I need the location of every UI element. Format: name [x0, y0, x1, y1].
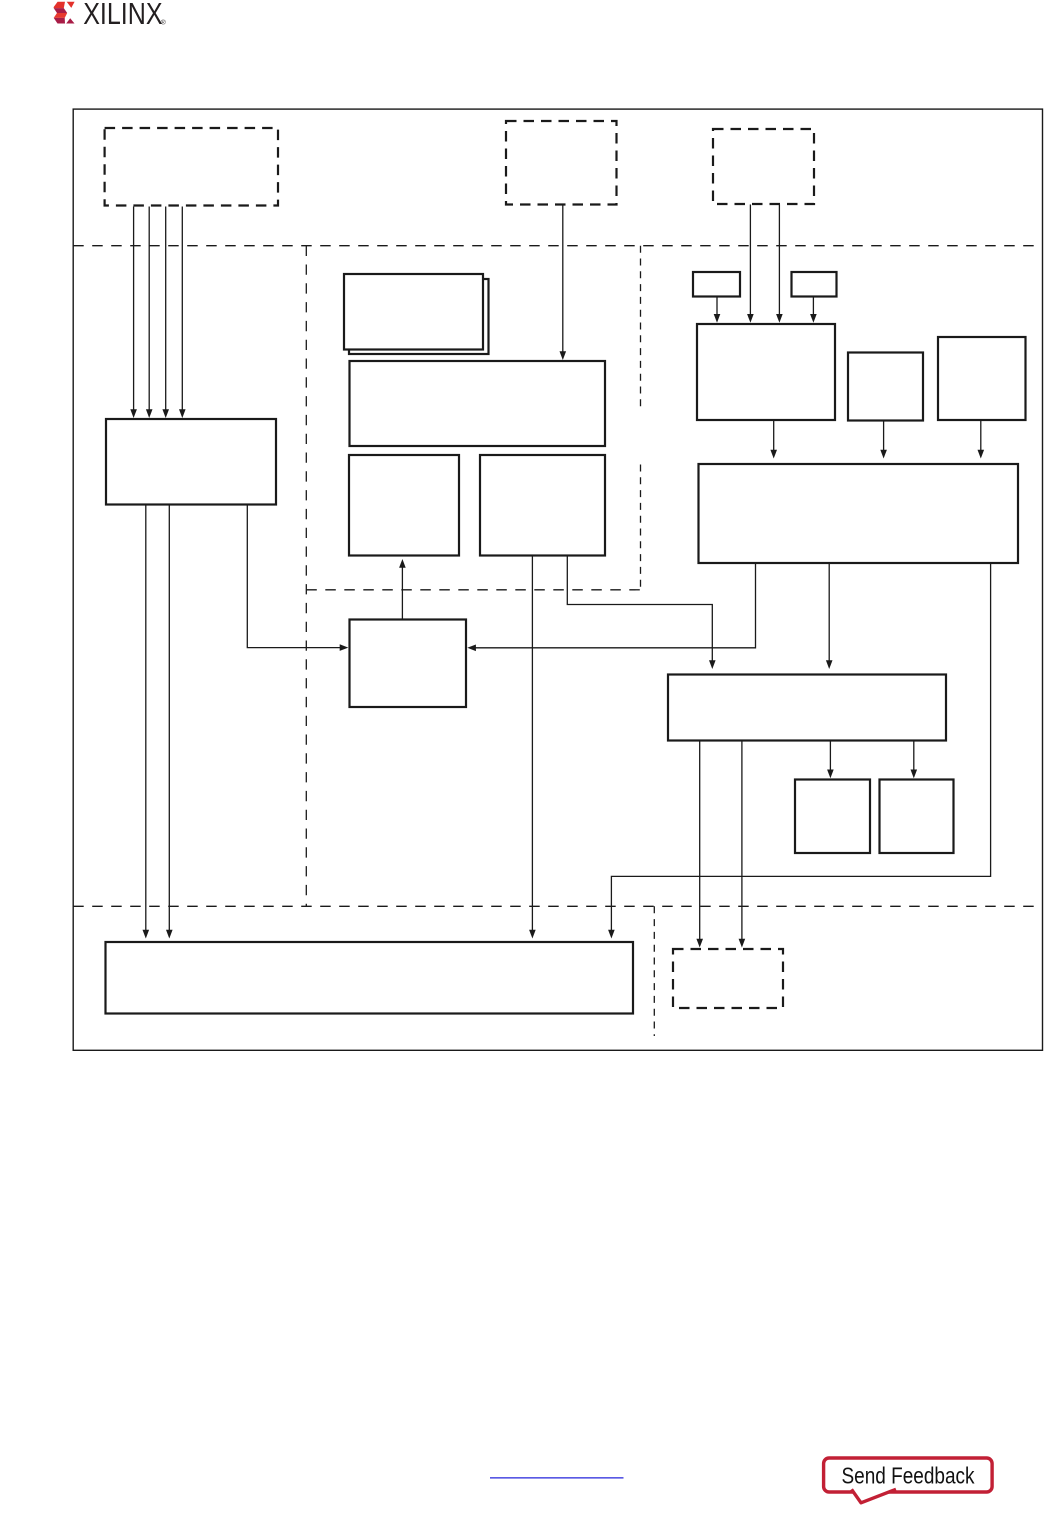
wire from top-middle dashed box	[560, 206, 567, 361]
Send Feedback button	[824, 1458, 993, 1503]
wire 1 from top-right dashed box	[747, 205, 754, 323]
wire block R1 to R4	[770, 421, 777, 459]
right block R7	[880, 780, 954, 854]
stacked box front	[344, 274, 483, 350]
footer hyperlink line	[490, 1477, 624, 1479]
wire R4 to config block	[467, 563, 755, 651]
middle block M2	[349, 455, 459, 556]
middle block M1	[350, 361, 606, 446]
right wide block R4	[699, 464, 1019, 563]
wire config block up to M2	[399, 559, 406, 620]
right block R2	[848, 353, 923, 421]
dashed box bottom	[673, 949, 783, 1008]
wire from small box 1	[714, 297, 721, 323]
wire arrow 2 from top-left dashed box	[146, 207, 153, 419]
wire arrow 3 from top-left dashed box	[162, 207, 169, 419]
dashed box top-middle	[506, 121, 617, 205]
Xilinx logo mark	[54, 2, 75, 24]
config block	[350, 620, 467, 708]
wire arrow 4 from top-left dashed box	[179, 207, 186, 419]
svg-text:®: ®	[161, 18, 166, 26]
wire R5 to R7	[911, 741, 918, 779]
dashed separator line middle vertical upper	[640, 246, 642, 408]
wire M3 to R5	[567, 556, 715, 670]
right wide block R5	[668, 675, 946, 741]
right block R1	[697, 324, 835, 420]
dashed box top-left	[105, 128, 278, 206]
wire block R3 to R4	[978, 420, 985, 459]
wire block R2 to R4	[880, 421, 887, 459]
wire 1 left block to bottom block	[143, 505, 150, 939]
middle block M3	[480, 455, 605, 556]
diagram outer border	[73, 109, 1042, 1050]
wire 1 R5 to bottom dashed box	[696, 741, 703, 948]
small box S2	[792, 272, 837, 297]
svg-text:XILINX: XILINX	[83, 0, 163, 31]
dashed box top-right	[713, 129, 814, 204]
dashed separator line left vertical	[305, 246, 307, 907]
wire M3 to bottom block	[529, 556, 536, 939]
dashed separator line bottom-right vertical	[653, 906, 655, 1036]
dashed separator line top horizontal	[73, 245, 1042, 247]
dashed separator line bottom horizontal	[73, 905, 1042, 907]
wire arrow 1 from top-left dashed box	[130, 207, 137, 419]
left block L1	[106, 419, 276, 505]
wire from small box 2	[810, 297, 817, 323]
wire R4 to bottom block	[608, 563, 991, 939]
dashed separator line middle horizontal	[306, 589, 640, 591]
wire R5 to R6	[827, 741, 834, 779]
wire 2 from top-right dashed box	[776, 205, 783, 323]
wire left block to config block	[247, 505, 348, 651]
svg-text:Send Feedback: Send Feedback	[842, 1462, 975, 1488]
stacked box shadow	[349, 279, 489, 354]
bottom wide block B1	[106, 942, 634, 1014]
small box S1	[693, 272, 740, 297]
wire 2 left block to bottom block	[166, 505, 173, 939]
right block R6	[795, 780, 870, 854]
wire R4 to R5	[826, 563, 833, 669]
dashed separator line middle vertical lower	[640, 465, 642, 591]
right block R3	[938, 337, 1026, 420]
wire 2 R5 to bottom dashed box	[739, 741, 746, 948]
